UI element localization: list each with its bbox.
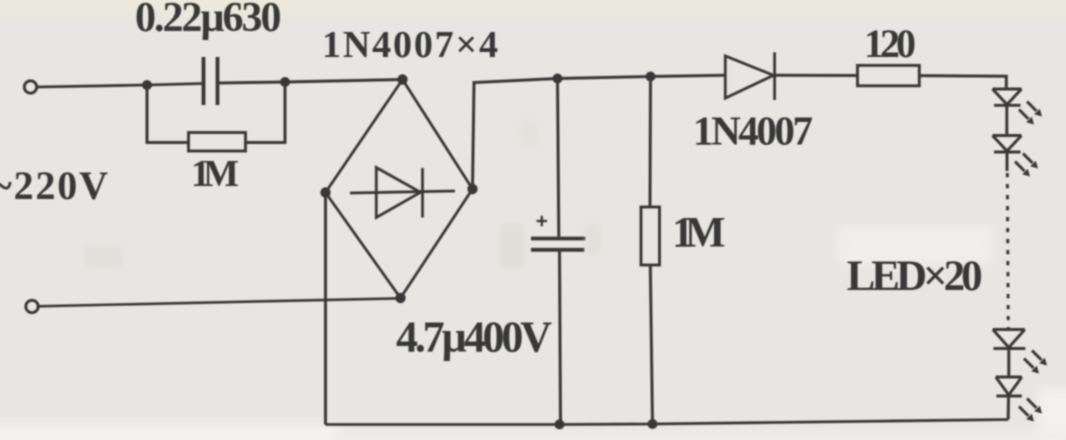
wire dashed (LED string continues) — [1006, 152, 1009, 171]
resistor R2 1M (vertical) branch — [641, 77, 660, 425]
node bridge top — [397, 74, 407, 84]
svg-text:0.22µ630: 0.22µ630 — [135, 0, 282, 41]
svg-text:~220V: ~220V — [0, 163, 108, 208]
wire node B to bridge top — [285, 80, 403, 83]
node A junction — [142, 80, 152, 90]
LED3 emission arrows — [1024, 351, 1047, 374]
bridge rectifier U1 1N4007x4 diamond — [326, 80, 473, 299]
terminal T2 (AC input bottom) — [26, 300, 38, 312]
wire from C1 to node B — [218, 82, 285, 83]
capacitor C1 0.22µ630 plates — [204, 57, 218, 105]
node B junction — [280, 77, 290, 87]
wire LED4 down to bottom rail — [1007, 396, 1010, 420]
terminal T1 (AC input top) — [24, 81, 36, 93]
wire LED1 to LED2 — [1005, 105, 1008, 135]
LED2 emission arrows — [1015, 154, 1038, 177]
svg-text:1N4007: 1N4007 — [693, 108, 813, 154]
node E cap bottom — [555, 419, 565, 429]
resistor R1 1M (parallel) — [189, 133, 246, 152]
node D resistor 1M top — [646, 72, 656, 82]
svg-text:4.7µ400V: 4.7µ400V — [396, 313, 552, 362]
wire bridge right vertex up and right (DC+ rail) — [473, 75, 726, 189]
wire resistor 120 to LED column — [919, 76, 1006, 89]
LED2 — [993, 136, 1022, 153]
bridge inner diode — [350, 168, 455, 218]
node C filter cap top — [553, 74, 563, 84]
wire parallel branch right-up — [246, 82, 286, 143]
bleed-through smudges — [84, 120, 601, 268]
wire diode to resistor 120 — [775, 74, 858, 77]
svg-text:1M: 1M — [672, 210, 726, 257]
wire top rail left — [37, 84, 204, 88]
LED4 emission arrows — [1019, 399, 1042, 422]
wire bridge left vertex down to bottom rail — [324, 193, 327, 425]
wire LED3 to LED4 — [1007, 349, 1010, 378]
svg-text:LED×20: LED×20 — [847, 253, 983, 300]
wire parallel branch down-left — [147, 85, 189, 143]
LED1 emission arrows — [1019, 102, 1042, 125]
svg-text:1M: 1M — [191, 153, 239, 195]
wire bottom rail — [326, 420, 1009, 425]
svg-text:120: 120 — [864, 21, 916, 66]
svg-text:1N4007×4: 1N4007×4 — [322, 24, 498, 66]
LED3 — [993, 330, 1026, 349]
wire lower AC line to bridge bottom — [38, 298, 401, 306]
node bridge bottom — [395, 293, 405, 303]
node F resistor bottom — [648, 419, 658, 429]
diode D1 1N4007 — [725, 52, 774, 100]
LED1 — [993, 89, 1022, 105]
capacitor C2 4.7µ400V branch — [531, 79, 586, 425]
node bridge right — [467, 184, 477, 194]
LED4 — [996, 377, 1022, 396]
node bridge left — [320, 187, 330, 197]
resistor R3 120 — [858, 65, 920, 85]
